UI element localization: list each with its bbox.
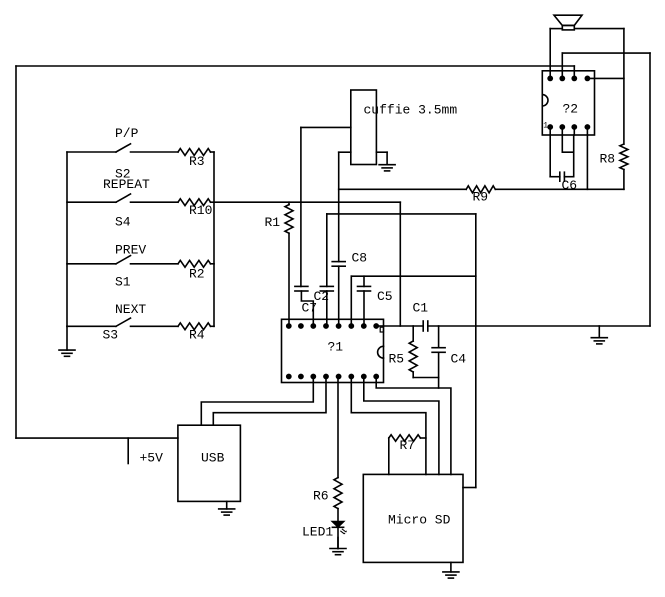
wire [549, 29, 551, 79]
wire main bottom net [384, 325, 424, 327]
svg-text:REPEAT: REPEAT [103, 177, 150, 192]
svg-text:R1: R1 [265, 215, 281, 230]
wire [573, 135, 575, 177]
wire [363, 276, 365, 286]
svg-text:S4: S4 [115, 214, 131, 229]
svg-text:USB: USB [201, 451, 225, 466]
wire right border [649, 53, 651, 326]
switch S4 blade [116, 194, 131, 202]
wire [623, 170, 625, 190]
switch S2 blade [116, 144, 131, 152]
node R1 label [265, 215, 281, 230]
wire [413, 377, 438, 379]
svg-text:LED1: LED1 [302, 525, 333, 540]
op-amp U1 body [282, 319, 384, 382]
svg-text:cuffie 3.5mm: cuffie 3.5mm [364, 103, 458, 118]
wire [438, 352, 440, 388]
connector Micro SD box [363, 474, 463, 562]
node REPEAT label [103, 177, 150, 192]
resistor R9 [466, 186, 495, 193]
node R10 label [189, 203, 212, 218]
wire [211, 201, 401, 203]
svg-text:Micro SD: Micro SD [388, 512, 451, 527]
node P/P label [115, 126, 139, 141]
wire [399, 202, 401, 326]
wire [67, 151, 116, 153]
ground [379, 152, 395, 171]
wire [131, 263, 179, 265]
svg-text:C1: C1 [413, 301, 429, 316]
wire [213, 377, 326, 426]
wire [550, 176, 560, 178]
node +5V label [140, 451, 164, 466]
wire [201, 377, 313, 426]
resistor R7 [389, 435, 421, 441]
wire [412, 326, 414, 341]
ground [591, 326, 607, 344]
wire [301, 291, 313, 326]
wire [337, 527, 339, 549]
resistor R3 [178, 149, 211, 156]
node LED1 label [302, 525, 333, 540]
diode LED1 [332, 522, 343, 528]
wire [211, 325, 215, 327]
node U2 notch [542, 95, 548, 106]
svg-text:NEXT: NEXT [115, 302, 146, 317]
ground [443, 562, 459, 578]
wire [550, 28, 562, 30]
node S4 label [115, 214, 131, 229]
node R8 label [600, 152, 616, 167]
wire left border [15, 66, 17, 438]
node R5 label [389, 352, 405, 367]
node S2 label [115, 166, 131, 181]
node S1 label [115, 275, 131, 290]
wire [412, 372, 414, 378]
node U1 pins [286, 323, 379, 379]
svg-text:?1: ?1 [328, 340, 344, 355]
wire [376, 151, 387, 153]
node C4 label [451, 352, 467, 367]
wire [587, 77, 624, 79]
wire [131, 325, 179, 327]
node U1 notch [378, 346, 384, 358]
node USB label [201, 451, 225, 466]
svg-text:R2: R2 [189, 267, 205, 282]
node R6 label [313, 489, 329, 504]
switch S3 blade [116, 318, 131, 326]
resistor R1 [285, 205, 293, 234]
wire [561, 53, 563, 78]
wire [376, 377, 451, 475]
wire [428, 325, 650, 327]
resistor R6 [334, 478, 342, 509]
wire [388, 438, 390, 474]
node S3 label [103, 328, 119, 343]
switch S1 blade [116, 256, 131, 264]
node C6 label [562, 178, 578, 193]
wire [364, 377, 439, 475]
wire [420, 437, 426, 439]
speaker LS1 [554, 15, 582, 30]
wire [337, 377, 339, 478]
node C7 label [302, 301, 318, 316]
node cuffie label [364, 103, 458, 118]
node R2 label [189, 267, 205, 282]
wire [574, 28, 624, 30]
node LED1 arrows [341, 529, 347, 534]
ground [219, 501, 235, 515]
wire [131, 151, 179, 153]
node PREV label [115, 243, 146, 258]
wire [463, 487, 476, 489]
wire [326, 291, 328, 326]
wire [301, 126, 351, 128]
svg-text:R4: R4 [189, 328, 205, 343]
wire [288, 202, 290, 204]
wire [586, 135, 588, 189]
svg-text:+5V: +5V [140, 451, 164, 466]
svg-text:S1: S1 [115, 275, 131, 290]
wire [300, 127, 302, 286]
node R4 label [189, 328, 205, 343]
wire [288, 233, 290, 326]
wire [350, 276, 352, 326]
resistor R10 [178, 199, 211, 206]
wire [338, 266, 340, 326]
ground [330, 538, 346, 555]
wire [211, 151, 215, 153]
wire [67, 263, 116, 265]
wire [376, 325, 383, 327]
wire [475, 214, 477, 488]
svg-text:R7: R7 [400, 438, 416, 453]
node U2 pins [547, 76, 590, 130]
wire [338, 152, 340, 261]
svg-text:P/P: P/P [115, 126, 139, 141]
svg-text:C6: C6 [562, 178, 578, 193]
wire [549, 127, 551, 135]
node C5 label [377, 289, 393, 304]
capacitor C4 [432, 348, 445, 353]
capacitor C1 [423, 321, 428, 331]
wire [549, 135, 551, 177]
wire [339, 151, 351, 153]
connector J1 cuffie box [351, 90, 377, 165]
capacitor C5 [358, 286, 371, 291]
svg-text:?2: ?2 [563, 102, 579, 117]
svg-text:S3: S3 [103, 328, 119, 343]
svg-text:R3: R3 [189, 154, 205, 169]
connector USB box [178, 425, 241, 501]
wire [351, 377, 426, 475]
wire net B [351, 275, 476, 277]
wire [363, 291, 365, 326]
svg-text:PREV: PREV [115, 243, 146, 258]
svg-text:R9: R9 [473, 190, 489, 205]
wire [573, 66, 575, 78]
svg-text:R5: R5 [389, 352, 405, 367]
capacitor C8 [332, 262, 345, 267]
resistor R8 [620, 144, 628, 170]
node R7 label [400, 438, 416, 453]
wire [337, 509, 339, 521]
ground [59, 326, 75, 356]
wire left button bus [66, 152, 68, 326]
wire [586, 127, 588, 135]
node U1 pin1 mark [380, 327, 383, 332]
svg-text:C5: C5 [377, 289, 393, 304]
svg-text:C8: C8 [352, 251, 368, 266]
wire [623, 29, 625, 144]
node U2 pin1 label [543, 121, 548, 130]
wire [495, 188, 624, 190]
node +5V tick [127, 438, 129, 463]
resistor R4 [178, 323, 211, 330]
node R3 label [189, 154, 205, 169]
wire net A [327, 213, 476, 215]
op-amp U2 body [542, 71, 594, 135]
node R9 label [473, 190, 489, 205]
wire right border top [562, 52, 650, 54]
svg-text:C4: C4 [451, 352, 467, 367]
wire [131, 201, 179, 203]
svg-text:C2: C2 [314, 289, 330, 304]
wire [573, 127, 575, 135]
node NEXT label [115, 302, 146, 317]
wire [564, 176, 573, 178]
wire audio net [339, 188, 467, 190]
svg-text:R8: R8 [600, 152, 616, 167]
svg-text:1: 1 [543, 121, 548, 130]
wire [438, 326, 440, 348]
node U1 label [328, 340, 344, 355]
node Micro SD label [388, 512, 451, 527]
capacitor C7 [295, 286, 308, 291]
wire [562, 135, 573, 152]
node U2 label [563, 102, 579, 117]
wire [67, 325, 116, 327]
wire +5V supply [16, 437, 178, 439]
wire [561, 127, 563, 135]
wire right button bus [213, 152, 215, 326]
node C1 label [413, 301, 429, 316]
wire [326, 214, 328, 287]
wire [67, 201, 116, 203]
svg-text:R10: R10 [189, 203, 212, 218]
capacitor C2 [320, 286, 333, 291]
resistor R2 [178, 260, 211, 267]
wire [211, 263, 215, 265]
svg-text:R6: R6 [313, 489, 329, 504]
node C2 label [314, 289, 330, 304]
capacitor C6 [560, 172, 565, 181]
resistor R5 [409, 341, 417, 372]
node C8 label [352, 251, 368, 266]
wire main top net [16, 65, 574, 67]
